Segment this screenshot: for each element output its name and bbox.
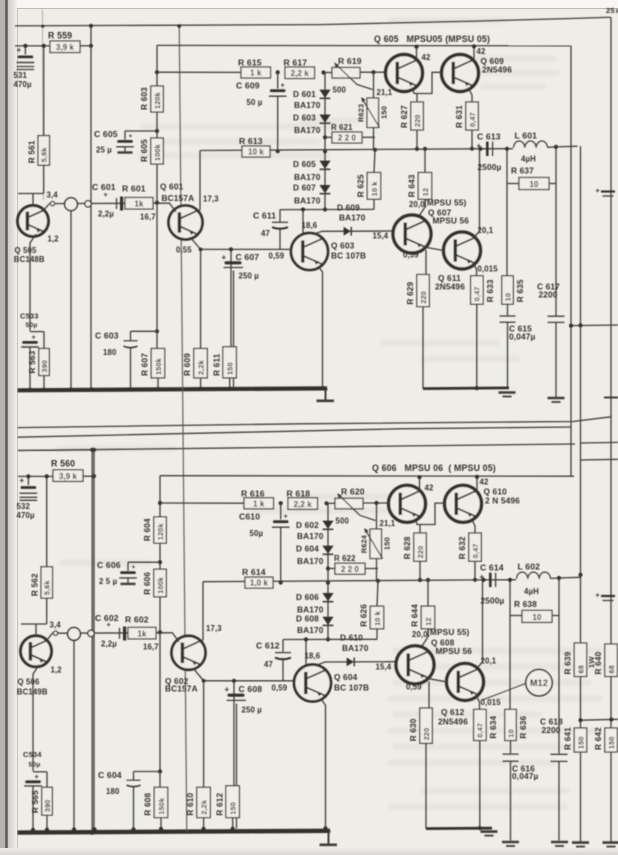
svg-text:D 608: D 608: [296, 613, 319, 623]
svg-text:2 2 0: 2 2 0: [338, 134, 357, 143]
svg-text:17,3: 17,3: [203, 195, 219, 204]
svg-text:120k: 120k: [153, 92, 162, 109]
svg-text:R 630: R 630: [409, 718, 418, 741]
svg-text:12: 12: [421, 188, 430, 196]
svg-text:(MPSU 55): (MPSU 55): [427, 627, 469, 637]
svg-text:R 622: R 622: [334, 554, 356, 563]
svg-text:D 610: D 610: [340, 632, 363, 642]
svg-text:Q 505: Q 505: [15, 246, 38, 255]
svg-text:Q 506: Q 506: [18, 678, 41, 687]
svg-text:150k: 150k: [157, 798, 166, 815]
svg-text:+: +: [596, 188, 600, 195]
svg-text:BC149B: BC149B: [17, 687, 48, 696]
svg-text:L 602: L 602: [518, 562, 541, 572]
svg-text:D 609: D 609: [337, 203, 360, 213]
svg-text:150: 150: [380, 106, 389, 119]
svg-text:1 k: 1 k: [250, 69, 262, 78]
svg-text:2 2 0: 2 2 0: [341, 565, 360, 574]
svg-text:D 605: D 605: [293, 159, 316, 169]
svg-text:R 559: R 559: [48, 31, 72, 41]
svg-text:100k: 100k: [156, 577, 165, 594]
svg-text:L 601: L 601: [515, 131, 538, 141]
svg-text:MPSU 56: MPSU 56: [433, 216, 470, 226]
svg-text:3,4: 3,4: [47, 191, 59, 200]
svg-text:20,0: 20,0: [412, 630, 428, 639]
svg-text:R 626: R 626: [360, 604, 369, 627]
svg-text:BC148B: BC148B: [14, 255, 45, 264]
svg-text:5,6k: 5,6k: [40, 147, 49, 162]
svg-text:R 634: R 634: [489, 716, 498, 739]
svg-text:47: 47: [264, 660, 273, 669]
svg-text:Q 601: Q 601: [160, 182, 184, 192]
svg-text:R 561: R 561: [27, 140, 36, 163]
svg-text:+: +: [225, 685, 230, 694]
svg-text:470µ: 470µ: [17, 511, 35, 520]
svg-text:BA170: BA170: [294, 125, 321, 135]
svg-text:C 614: C 614: [480, 563, 504, 573]
svg-text:C 611: C 611: [253, 211, 276, 221]
svg-text:Q 603: Q 603: [331, 241, 355, 251]
svg-text:500: 500: [333, 86, 347, 95]
svg-text:68: 68: [576, 665, 585, 673]
svg-text:R 617: R 617: [284, 58, 308, 68]
svg-text:470µ: 470µ: [14, 80, 32, 89]
svg-text:0,47: 0,47: [471, 543, 480, 558]
svg-text:R 619: R 619: [338, 56, 362, 66]
svg-text:D 604: D 604: [296, 544, 319, 554]
svg-text:R 613: R 613: [239, 136, 263, 146]
svg-text:150: 150: [383, 537, 392, 550]
svg-text:100k: 100k: [153, 144, 162, 161]
svg-text:R 602: R 602: [125, 614, 149, 624]
svg-text:0,59: 0,59: [272, 684, 288, 693]
svg-text:0,47: 0,47: [476, 723, 485, 738]
svg-text:18,6: 18,6: [302, 221, 318, 230]
svg-text:390: 390: [43, 800, 52, 813]
svg-text:220: 220: [416, 546, 425, 559]
svg-text:17,3: 17,3: [206, 624, 222, 633]
svg-text:120k: 120k: [156, 523, 165, 540]
svg-text:250 µ: 250 µ: [242, 705, 263, 714]
svg-text:BA170: BA170: [294, 100, 321, 110]
svg-text:42: 42: [422, 53, 431, 62]
svg-text:M12: M12: [530, 678, 548, 688]
svg-text:390: 390: [40, 360, 49, 373]
svg-text:2N5496: 2N5496: [438, 716, 468, 726]
svg-text:68: 68: [607, 665, 616, 673]
svg-text:C 609: C 609: [236, 81, 260, 91]
svg-text:250 µ: 250 µ: [239, 272, 260, 281]
svg-text:R 637: R 637: [511, 166, 534, 176]
svg-text:1k: 1k: [138, 630, 147, 639]
svg-text:+: +: [104, 190, 108, 199]
svg-text:150: 150: [576, 736, 585, 749]
svg-text:R 632: R 632: [458, 536, 467, 559]
svg-text:R 607: R 607: [141, 353, 150, 376]
svg-text:16,7: 16,7: [143, 643, 159, 652]
svg-text:C 606: C 606: [97, 560, 121, 570]
svg-text:BA170: BA170: [294, 172, 321, 182]
svg-text:R 615: R 615: [238, 58, 262, 68]
svg-text:R 644: R 644: [411, 604, 420, 627]
svg-text:2200: 2200: [542, 725, 561, 735]
svg-text:R 614: R 614: [242, 567, 266, 577]
svg-text:R 638: R 638: [514, 599, 537, 609]
svg-text:10: 10: [503, 293, 512, 301]
svg-text:R623: R623: [357, 104, 366, 122]
svg-text:R 605: R 605: [140, 139, 149, 162]
svg-text:25 µ: 25 µ: [96, 146, 112, 155]
svg-text:R 642: R 642: [594, 727, 603, 750]
svg-text:+: +: [596, 593, 600, 600]
svg-text:0,047µ: 0,047µ: [509, 332, 536, 342]
svg-text:R 641: R 641: [564, 727, 573, 750]
svg-text:+: +: [480, 573, 485, 582]
svg-text:0,59: 0,59: [403, 251, 419, 260]
svg-text:R 606: R 606: [143, 572, 152, 595]
svg-text:BC 107B: BC 107B: [334, 683, 369, 693]
svg-text:D 601: D 601: [293, 89, 316, 99]
svg-text:47: 47: [261, 229, 270, 238]
svg-text:BA170: BA170: [297, 531, 324, 541]
svg-text:1 k: 1 k: [253, 499, 265, 508]
svg-text:0,47: 0,47: [473, 286, 482, 301]
svg-text:50 µ: 50 µ: [247, 98, 263, 107]
svg-text:220: 220: [422, 728, 431, 741]
svg-text:1,0 k: 1,0 k: [250, 579, 269, 588]
svg-text:C 603: C 603: [95, 331, 119, 341]
svg-text:2,2µ: 2,2µ: [98, 210, 114, 219]
svg-text:0,015: 0,015: [478, 265, 499, 274]
svg-text:R 621: R 621: [331, 123, 353, 132]
svg-text:C533: C533: [20, 312, 39, 321]
svg-text:10: 10: [506, 729, 515, 737]
svg-text:42: 42: [477, 47, 486, 56]
svg-text:+: +: [129, 133, 133, 140]
svg-text:C 612: C 612: [256, 641, 280, 651]
svg-text:42: 42: [425, 484, 434, 493]
svg-text:150k: 150k: [154, 358, 163, 375]
svg-text:+: +: [281, 81, 285, 90]
svg-text:R 631: R 631: [455, 105, 464, 128]
svg-text:0,59: 0,59: [406, 683, 422, 692]
svg-text:R 635: R 635: [516, 279, 525, 302]
svg-text:D 606: D 606: [296, 592, 319, 602]
svg-text:2,2 k: 2,2 k: [291, 69, 310, 78]
svg-text:+: +: [107, 620, 111, 629]
svg-text:150: 150: [226, 362, 235, 375]
svg-text:2N5496: 2N5496: [482, 65, 512, 75]
svg-text:50µ: 50µ: [26, 322, 38, 329]
svg-text:2200: 2200: [539, 290, 558, 300]
svg-text:18,6: 18,6: [305, 652, 321, 661]
svg-text:531: 531: [14, 71, 28, 80]
svg-text:21,1: 21,1: [380, 519, 396, 528]
svg-text:+: +: [132, 564, 136, 571]
svg-text:2500µ: 2500µ: [481, 595, 505, 605]
svg-text:0,47: 0,47: [468, 112, 477, 127]
svg-text:3,4: 3,4: [50, 620, 62, 629]
svg-text:R 618: R 618: [287, 488, 311, 498]
svg-text:2,2k: 2,2k: [200, 800, 209, 815]
svg-text:3,9 k: 3,9 k: [56, 43, 75, 52]
svg-text:50µ: 50µ: [29, 762, 41, 769]
svg-text:532: 532: [17, 502, 31, 511]
svg-text:R 562: R 562: [30, 573, 39, 596]
svg-text:R 629: R 629: [406, 282, 415, 305]
svg-text:220: 220: [413, 114, 422, 127]
svg-text:2,2k: 2,2k: [197, 360, 206, 375]
svg-text:10: 10: [530, 180, 539, 189]
svg-text:BC 107B: BC 107B: [331, 251, 366, 261]
svg-text:BA170: BA170: [342, 643, 369, 653]
svg-text:+: +: [222, 253, 227, 262]
svg-text:R 627: R 627: [400, 105, 409, 128]
svg-text:2,2µ: 2,2µ: [101, 640, 117, 649]
svg-text:+: +: [35, 772, 39, 781]
svg-text:R 563: R 563: [28, 350, 37, 373]
svg-text:BC157A: BC157A: [165, 684, 198, 694]
svg-text:R 616: R 616: [241, 488, 265, 498]
svg-text:15,4: 15,4: [373, 232, 389, 241]
svg-text:C 605: C 605: [94, 129, 118, 139]
svg-text:R 640: R 640: [594, 651, 603, 674]
svg-text:R 565: R 565: [31, 790, 40, 813]
svg-text:1k: 1k: [135, 200, 144, 209]
svg-text:12: 12: [424, 617, 433, 625]
svg-text:3,9 k: 3,9 k: [59, 472, 78, 481]
svg-text:50µ: 50µ: [250, 529, 264, 538]
svg-text:C610: C610: [239, 511, 260, 521]
svg-text:D 602: D 602: [296, 520, 319, 530]
svg-text:C 607: C 607: [236, 252, 260, 262]
svg-text:1,2: 1,2: [48, 235, 60, 244]
svg-text:Q 605 MPSU05 (MPSU 05): Q 605 MPSU05 (MPSU 05): [374, 34, 490, 44]
svg-text:Q 604: Q 604: [334, 672, 358, 682]
svg-text:25: 25: [606, 6, 615, 15]
svg-text:+: +: [17, 46, 22, 55]
svg-text:180: 180: [106, 787, 120, 796]
svg-text:15,4: 15,4: [376, 662, 392, 671]
svg-text:150: 150: [607, 736, 616, 749]
svg-text:BA170: BA170: [297, 625, 324, 635]
svg-text:C534: C534: [23, 750, 42, 759]
svg-text:+: +: [284, 511, 288, 520]
svg-text:R 603: R 603: [140, 87, 149, 110]
svg-text:+: +: [32, 333, 36, 342]
svg-text:0,047µ: 0,047µ: [512, 771, 539, 781]
svg-text:2N5496: 2N5496: [435, 282, 465, 292]
svg-text:2,2 k: 2,2 k: [294, 500, 313, 509]
svg-text:R 610: R 610: [186, 793, 195, 816]
svg-text:0,59: 0,59: [269, 252, 285, 261]
svg-text:D 607: D 607: [293, 183, 316, 193]
svg-text:R 604: R 604: [143, 518, 152, 541]
svg-text:2 5 µ: 2 5 µ: [99, 577, 118, 586]
svg-text:500: 500: [336, 517, 350, 526]
svg-text:220: 220: [419, 291, 428, 304]
svg-text:10 k: 10 k: [373, 611, 382, 626]
svg-text:R 643: R 643: [408, 174, 417, 197]
svg-text:R 612: R 612: [215, 793, 224, 816]
svg-text:150: 150: [229, 802, 238, 815]
svg-text:42: 42: [480, 478, 489, 487]
svg-text:21,1: 21,1: [377, 88, 393, 97]
svg-text:+: +: [20, 476, 25, 485]
svg-text:BA170: BA170: [297, 556, 324, 566]
svg-text:C 604: C 604: [98, 770, 122, 780]
svg-text:20,0: 20,0: [409, 200, 425, 209]
svg-text:R 609: R 609: [183, 353, 192, 376]
svg-text:2500µ: 2500µ: [478, 162, 502, 172]
svg-text:C 608: C 608: [239, 684, 263, 694]
svg-text:D 603: D 603: [293, 113, 316, 123]
svg-text:(MPSU 55): (MPSU 55): [424, 198, 466, 208]
svg-text:BC157A: BC157A: [162, 193, 195, 203]
svg-text:10: 10: [533, 613, 542, 622]
svg-text:MPSU 56: MPSU 56: [436, 646, 473, 656]
svg-text:R 611: R 611: [212, 353, 221, 376]
svg-text:+: +: [477, 142, 482, 151]
svg-text:1,2: 1,2: [51, 666, 63, 675]
svg-text:BA170: BA170: [294, 196, 321, 206]
svg-text:R 620: R 620: [341, 487, 365, 497]
svg-text:16,7: 16,7: [140, 213, 156, 222]
svg-text:R 608: R 608: [144, 793, 153, 816]
svg-text:R 636: R 636: [519, 716, 528, 739]
svg-text:Q 606 MPSU 06 ( MPSU 05): Q 606 MPSU 06 ( MPSU 05): [372, 463, 496, 473]
svg-text:C 613: C 613: [477, 132, 501, 142]
svg-text:4µH: 4µH: [524, 587, 539, 596]
svg-text:R 628: R 628: [403, 536, 412, 559]
svg-text:R624: R624: [360, 534, 369, 553]
svg-text:R 560: R 560: [51, 459, 75, 469]
svg-text:180: 180: [103, 348, 117, 357]
svg-text:R 639: R 639: [564, 651, 573, 674]
svg-text:5,6k: 5,6k: [43, 580, 52, 595]
svg-text:R 601: R 601: [122, 184, 146, 194]
svg-text:0,55: 0,55: [176, 246, 192, 255]
svg-text:R 633: R 633: [486, 279, 495, 302]
svg-text:10 k: 10 k: [370, 181, 379, 196]
svg-text:10 k: 10 k: [248, 148, 264, 157]
svg-text:2 N 5496: 2 N 5496: [485, 495, 520, 505]
svg-text:4µH: 4µH: [521, 155, 536, 164]
svg-text:BA170: BA170: [339, 213, 366, 223]
svg-text:R 625: R 625: [357, 174, 366, 197]
